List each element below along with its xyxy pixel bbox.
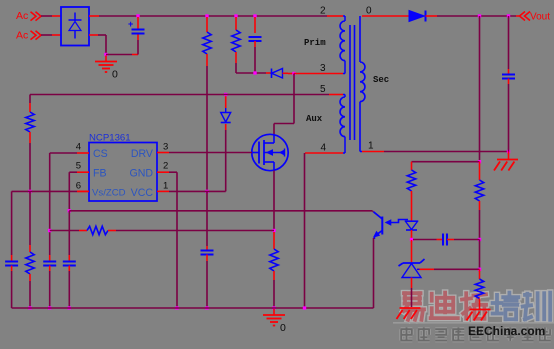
junction FB opto — [68, 209, 71, 212]
watermark underline — [393, 322, 554, 324]
ground 0 input — [105, 56, 107, 62]
wire fb column top — [479, 16, 481, 162]
wire TL431 ref — [417, 268, 434, 270]
junction rail sense — [272, 306, 275, 309]
resistor CS filter Rcs — [50, 230, 79, 232]
wire CS pin left — [50, 152, 77, 154]
pin 4 stub — [77, 152, 89, 154]
svg-text:GND: GND — [129, 167, 153, 179]
junction Vs divider — [28, 190, 31, 193]
svg-text:+: + — [128, 19, 133, 29]
opto light arrows — [388, 220, 408, 223]
wire TL431 anode — [411, 278, 413, 289]
wire CS column — [49, 153, 51, 246]
resistor Vs lower Rzcd2 — [29, 191, 31, 245]
pin 6 stub — [77, 190, 89, 192]
svg-text:Sec: Sec — [373, 75, 389, 85]
wire pin3 stub — [294, 73, 343, 75]
capacitor clamp C2 — [253, 14, 256, 17]
junction source sense — [272, 229, 275, 232]
transformer T1 primary winding — [343, 15, 345, 17]
junction fb div top — [478, 160, 481, 163]
svg-text:1: 1 — [368, 141, 374, 152]
svg-text:4: 4 — [321, 143, 327, 154]
svg-text:Vout: Vout — [530, 12, 550, 23]
svg-text:Vs/ZCD: Vs/ZCD — [92, 188, 126, 199]
ground 0 primary — [273, 309, 275, 315]
watermark small gray text row — [401, 328, 413, 341]
wire Ac1 to bridge — [41, 15, 52, 17]
junction secondary gnd — [507, 150, 510, 153]
port Vout — [516, 15, 520, 17]
wire fb tap — [412, 161, 480, 163]
resistor opto series Rd — [411, 162, 413, 170]
wire VCC node link — [207, 190, 226, 192]
wire HV top rail — [99, 15, 327, 17]
wire sense line — [116, 230, 274, 232]
bridge rectifier B1 — [61, 7, 89, 46]
ground earth secondary — [508, 152, 510, 160]
wire clamp bottom — [236, 72, 266, 74]
wire gnd node to bulk cap — [106, 54, 132, 56]
capacitor output Cout — [508, 16, 510, 69]
wire aux rail — [30, 94, 329, 96]
junction drain node — [292, 72, 295, 75]
wire Ac2 to bridge — [41, 34, 52, 36]
svg-text:3: 3 — [320, 63, 326, 74]
op-amp U1 NCP1361 box — [89, 143, 157, 202]
wire FB column — [68, 172, 70, 211]
svg-text:Prim: Prim — [304, 38, 326, 48]
svg-text:4: 4 — [76, 141, 81, 152]
wire startup R to VCC node — [206, 66, 208, 191]
svg-text:3: 3 — [163, 141, 168, 152]
wire drain route — [293, 74, 295, 124]
svg-text:Aux: Aux — [306, 114, 323, 124]
diode clamp D2 — [266, 72, 271, 74]
wire pin4 to rail — [305, 152, 343, 154]
diode opto LED — [405, 220, 418, 222]
svg-text:Ac: Ac — [16, 10, 28, 22]
resistor fb upper Rfb1 — [479, 162, 481, 180]
svg-text:5: 5 — [76, 161, 81, 172]
pin 2 stub — [157, 171, 169, 173]
wire opto emitter to rail — [373, 238, 375, 308]
wire bridge - output — [89, 34, 98, 36]
svg-text:0: 0 — [366, 6, 372, 17]
resistor startup R1 — [205, 14, 208, 17]
resistor fb lower Rfb2 — [479, 269, 481, 279]
junction fb mid — [478, 238, 481, 241]
capacitor bulk Cin — [136, 14, 139, 17]
wire pin1 to output gnd — [360, 151, 362, 153]
wire gate from DRV — [169, 152, 252, 154]
svg-text:NCP1361: NCP1361 — [89, 133, 131, 144]
wire VCC pin to node — [169, 190, 207, 192]
ground earth TL431 — [400, 307, 421, 309]
svg-text:CS: CS — [93, 148, 108, 160]
pin 5 stub — [77, 171, 89, 173]
junction ref node — [478, 268, 481, 271]
capacitor VCC Cvcc — [206, 191, 208, 246]
svg-text:VCC: VCC — [131, 187, 154, 199]
svg-text:EEChina.com: EEChina.com — [468, 324, 545, 338]
resistor Vs upper Rzcd1 — [29, 95, 31, 104]
resistor sense Rs — [273, 232, 275, 249]
capacitor FB Cfb — [68, 211, 70, 255]
wire FB pin left — [69, 171, 77, 173]
junction CS filter — [48, 229, 51, 232]
resistor clamp R2 — [234, 14, 237, 17]
wire diode to Vout — [437, 15, 516, 17]
wire fb mid down — [479, 240, 481, 270]
svg-text:1: 1 — [163, 180, 168, 191]
junction aux rail diode tap — [224, 93, 227, 96]
wire pin0 to diode — [362, 15, 409, 17]
junction VCC node — [205, 190, 208, 193]
wire GND pin down — [169, 171, 177, 173]
transformer T1 secondary winding — [359, 16, 361, 62]
svg-text:0: 0 — [112, 69, 118, 81]
wire bridge + output stub — [89, 15, 99, 17]
svg-text:0: 0 — [280, 322, 286, 334]
ground earth fb divider — [470, 309, 491, 311]
junction input gnd — [104, 53, 107, 56]
wire Vs to pin6 — [12, 190, 77, 192]
watermark big text row — [404, 293, 425, 320]
pin 3 stub — [157, 152, 169, 154]
svg-text:DRV: DRV — [131, 148, 154, 160]
junction led cathode — [410, 238, 413, 241]
svg-text:2: 2 — [320, 6, 326, 17]
capacitor CS filter Ccs — [49, 246, 51, 255]
wire source down — [273, 171, 275, 231]
svg-text:5: 5 — [320, 84, 326, 95]
wire FB to opto collector — [69, 210, 372, 212]
svg-text:6: 6 — [76, 180, 81, 191]
svg-text:FB: FB — [93, 167, 107, 179]
TL431 U3 — [411, 240, 413, 262]
junction out2 — [507, 14, 510, 17]
capacitor Vs filter C6 — [11, 191, 13, 255]
transformer T1 aux winding — [343, 94, 345, 96]
wire primary ground rail — [12, 307, 374, 309]
capacitor comp Cc — [413, 239, 437, 241]
transistor opto U2 phototransistor — [381, 217, 383, 235]
transistor Q1 MOSFET — [252, 134, 288, 170]
pin 1 stub — [157, 190, 169, 192]
diode output D1 — [409, 11, 425, 22]
junction out1 — [478, 14, 481, 17]
svg-text:Ac: Ac — [16, 30, 28, 42]
svg-text:2: 2 — [163, 161, 168, 172]
diode aux-VCC D3 — [225, 124, 227, 130]
transformer T1 core — [349, 25, 351, 140]
